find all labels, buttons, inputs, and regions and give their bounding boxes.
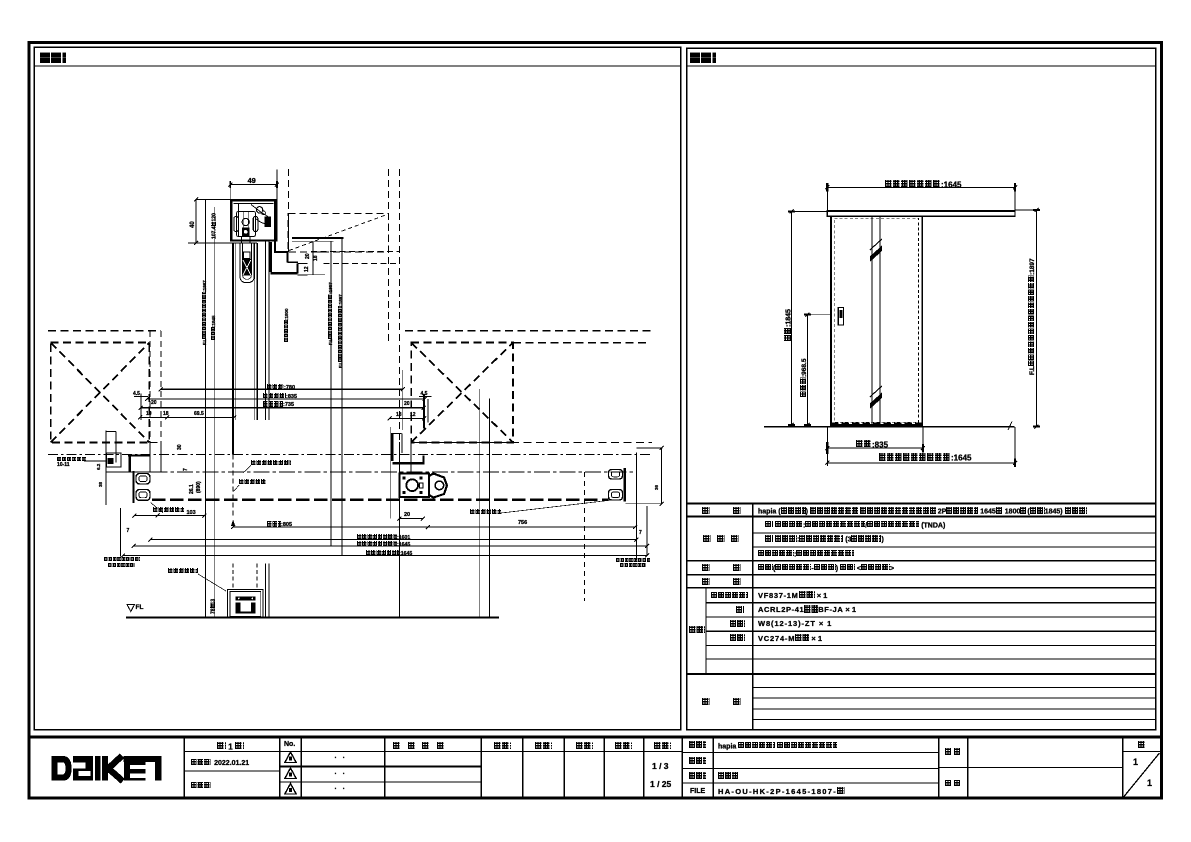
leader text 吊車移動芯 (239, 479, 266, 487)
dim line FL-rail top 1897 (1036, 210, 1038, 427)
spec label 備考 (702, 698, 710, 706)
value file name (718, 787, 845, 795)
wall end dashed (160, 331, 162, 442)
title block vertical divider (279, 737, 281, 798)
hinban row 扉 (736, 606, 744, 614)
FL text (136, 605, 144, 612)
right panel title 正面図 (690, 52, 716, 66)
label 改訂日 (191, 782, 211, 790)
dim text 吊車芯々寸法835 (263, 393, 297, 401)
ext line (229, 181, 231, 200)
spec table row line (686, 515, 1156, 517)
spec table row line (706, 645, 1156, 647)
page cell diagonal (1124, 753, 1160, 797)
spec table row line (706, 630, 1156, 632)
soffit stepped profile (wall above opening) (274, 200, 276, 252)
rot (890) (197, 481, 202, 493)
spec row 要式 (702, 507, 710, 515)
stile hatch lower (870, 393, 882, 410)
door inner dashed line (834, 218, 918, 422)
revision triangle 3 (285, 784, 296, 795)
biko sub row line (753, 708, 1156, 710)
dim line 1601 (150, 539, 636, 541)
door center stile left (871, 216, 873, 425)
dim extension vertical right b (489, 399, 491, 618)
floor end tick (1008, 422, 1012, 431)
leader 下ストッパー (floor) (168, 568, 198, 576)
wall face line lower (264, 564, 266, 618)
label 頁 (1138, 741, 1146, 750)
dim text 49 (248, 177, 256, 185)
dashed ext (149, 441, 161, 443)
right panel (front view) border (687, 48, 1156, 730)
title block vertical divider page col (1122, 737, 1124, 798)
wall end dashed (149, 331, 151, 442)
wall face line 2 lower (268, 564, 270, 618)
dim text 扉高:1845 (784, 309, 792, 341)
title block vertical divider (603, 737, 605, 798)
long vertical (wall corner) (341, 238, 343, 556)
ext to rail (792, 210, 828, 212)
wall stud X-box right (411, 343, 513, 443)
title block top line (28, 736, 1164, 739)
dim text FL~枠レールセット上端まで1897 (1028, 258, 1036, 375)
right ext vertical 2 (646, 506, 648, 556)
label 改訂履歴 (393, 742, 445, 751)
spec table label/content divider (752, 504, 754, 730)
right rail end vertical (635, 453, 637, 560)
dim line handle height (806, 315, 808, 425)
rot label FL~上端1897 (338, 294, 344, 368)
biko sub row line (753, 686, 1156, 688)
leader 下ストッパー (track) (153, 507, 184, 515)
dim line door height 1845 (791, 211, 793, 425)
wall line solid below (398, 442, 400, 617)
stile hatch upper (870, 246, 882, 263)
revision triangle 1 (285, 752, 296, 763)
door panel vertical section (232, 243, 234, 455)
scale 1/25 (650, 780, 671, 789)
spec table row line (706, 658, 1156, 660)
title header row underline (184, 750, 682, 752)
zumei row line (682, 782, 939, 784)
revision dots row 2 (335, 771, 346, 778)
dim line 1645a (134, 545, 648, 547)
hinban row 引手 (730, 620, 745, 628)
upper rail housing cross-section (231, 200, 276, 240)
biko sub row line (753, 719, 1156, 721)
wall stud X-box left (51, 343, 150, 443)
dim line: upper rail outer 1645 (827, 186, 1015, 188)
dim line 49 (230, 184, 277, 186)
rot 30 (178, 444, 183, 450)
right track stopper bracket (623, 468, 625, 502)
dim text 7 (639, 531, 642, 536)
ext (626, 503, 663, 505)
label No. (284, 741, 295, 748)
dashed vertical right (583, 472, 585, 601)
spec rows 仕上げ (703, 535, 711, 543)
title block vertical divider (522, 737, 524, 798)
rot dim 78=13 (210, 599, 217, 614)
left panel (section view) border (34, 47, 681, 730)
spec row 把手 (702, 564, 710, 572)
name row line (682, 752, 939, 754)
revision triangle 2 (285, 768, 296, 779)
title block vertical divider (643, 737, 645, 798)
left ext vertical for dims (120, 508, 122, 556)
left jamb casing detail (105, 431, 107, 506)
left panel title 断面図 (40, 52, 66, 66)
dim 20 (399, 518, 423, 520)
floor line (126, 616, 499, 618)
rot dim 38 (99, 482, 104, 487)
title block vertical divider after logo (183, 737, 185, 798)
mitsumori row line (682, 767, 939, 769)
revision dots row 1 (335, 755, 346, 762)
scale 1/3 (652, 762, 669, 771)
upper rail bar (827, 210, 1015, 216)
dashed wall outer face right (405, 330, 652, 332)
dim text 上レール外寸法:1645 (885, 180, 961, 189)
page col header underline (1123, 751, 1161, 753)
right panel header underline (686, 65, 1156, 67)
door top pocket and hanger bolt (240, 243, 254, 283)
revision row line 1 (280, 765, 482, 767)
page total 1 (1147, 779, 1152, 788)
leader text 全閉時扉先端位置 (251, 460, 291, 468)
ext line (922, 427, 924, 451)
label 制定日 2022.01.21 (191, 759, 250, 767)
biko sub row line (753, 697, 1156, 699)
dashed rect (opening above) (288, 213, 388, 252)
spec table row line (686, 560, 1156, 562)
dashed soffit line 2 (324, 263, 400, 265)
dim line 1645b (123, 555, 647, 557)
leader line (84, 460, 106, 462)
dim line bottom stopper 1645 (827, 462, 1015, 464)
ext line handle height (807, 314, 831, 316)
rot dim 6.2 (97, 464, 102, 470)
lintel cap thin (292, 240, 334, 242)
spec table row line (706, 616, 1156, 618)
dim text 40 (190, 221, 196, 228)
dashed diagonal (289, 215, 387, 251)
dim text レール内寸法735 (263, 401, 294, 409)
hinban row 吊戸レール (711, 592, 748, 600)
rot 26.1 (190, 484, 195, 494)
label 第1版 (217, 742, 244, 751)
rot label 扉高1845 (211, 315, 217, 340)
ext line left bottom (826, 427, 828, 466)
tiny text レールエンドキャップ right (616, 558, 650, 563)
FL floor marker (127, 605, 135, 612)
revision dots row 3 (335, 786, 346, 793)
dim 103 (134, 515, 204, 517)
label 作成 (576, 742, 593, 751)
wall face line above housing (276, 170, 278, 201)
spec row 錠前 (702, 578, 710, 586)
title block vertical divider rev (384, 737, 386, 798)
spec table row line (753, 546, 1156, 548)
upper rail bar top edge (827, 210, 1015, 212)
leader text 全体有効開口 (57, 457, 86, 464)
title block vertical divider (967, 737, 969, 798)
dim extension vertical left inner (214, 207, 216, 617)
dim text 756 (518, 521, 527, 527)
spec table row line (686, 673, 1156, 675)
label 名称 (689, 741, 706, 749)
title block vertical divider (712, 737, 714, 798)
dashed wall inner face right ext (513, 342, 650, 344)
floor line (764, 426, 1015, 428)
tiny text レールエンドキャップ left (104, 557, 140, 562)
dashed wall inner face right (411, 441, 652, 443)
ext (636, 447, 662, 449)
label 縮尺 (615, 742, 632, 751)
dim text 805 (267, 521, 292, 529)
dim text 下ストッパー内寸法1601 (357, 534, 410, 541)
dim text 下ストッパー外寸法:1645 (879, 453, 971, 462)
dim stack frame/rail widths (161, 388, 403, 390)
wall end solid (160, 442, 162, 472)
rot label 内法高1800 (284, 308, 290, 342)
title block vertical divider (563, 737, 565, 798)
spec table row line (686, 574, 1156, 576)
door bottom stopper strip (831, 422, 922, 425)
dim line 36 (661, 448, 663, 504)
rot label FL~吊車レール上端まで (202, 280, 208, 345)
hinban row 出隅 (730, 634, 745, 642)
spec label 品番 (689, 626, 705, 634)
wall centerline dash-dot (48, 454, 652, 456)
dim extension vertical right a (479, 389, 481, 617)
small dim 4.5 (134, 396, 148, 398)
dim text 20 (404, 513, 410, 519)
wall face line 2 (268, 241, 270, 420)
label 見積 (689, 757, 706, 765)
title block vertical divider (681, 737, 683, 798)
dashed wall stud line 2 (398, 169, 400, 442)
door travel heavy dashed line (152, 498, 609, 501)
floor stopper detail (228, 590, 264, 618)
title block vertical divider (300, 737, 302, 798)
stile hatch upper line (870, 239, 882, 250)
small ext (140, 394, 142, 421)
left panel header underline (34, 65, 682, 67)
sakusha/busho divider (939, 766, 1123, 768)
dim text 枠外寸法780 (267, 384, 295, 392)
door center stile right (879, 216, 881, 425)
center guide detail (400, 474, 430, 498)
stile hatch lower line (870, 386, 882, 397)
label 図名 (689, 772, 706, 780)
label 作者 (945, 748, 961, 756)
dim line 40 (195, 200, 197, 244)
wall face line (264, 241, 266, 420)
hinban sub divider (705, 588, 707, 674)
label FILE (690, 788, 705, 795)
dim line 805/756 (233, 526, 635, 528)
door handle (838, 308, 843, 326)
dashed wall stud line (387, 169, 389, 342)
dashed wall line (287, 169, 289, 252)
dim text 上レール外寸法1645 (366, 550, 412, 557)
title block vertical divider (938, 737, 940, 798)
ext line right (1014, 183, 1016, 211)
door panel outline (831, 216, 922, 425)
dim text 把手高:968.5 (800, 358, 808, 396)
left track stopper bracket (132, 471, 134, 503)
wall end solid (149, 442, 151, 472)
dim text 扉幅:835 (856, 440, 888, 449)
dim text 下ストッパー外寸法1645 (357, 541, 410, 548)
page 1 (1133, 758, 1138, 767)
small dims 20 18 12 (312, 242, 314, 275)
label 確認 (535, 742, 552, 751)
rot 7 (184, 468, 189, 471)
track top line dash-dot (152, 471, 637, 473)
title block vertical divider (480, 737, 482, 798)
spec table row line (686, 587, 1156, 589)
dashed soffit line (311, 251, 399, 253)
dim text 107.4=120 (211, 213, 218, 239)
seitei/kaitei divider (184, 770, 280, 772)
right wall end solid (410, 442, 412, 472)
dim extension vertical left outer (205, 200, 207, 618)
rot label FL~下端1807 (328, 282, 334, 345)
dim text 36 (655, 485, 660, 490)
label 部署 (945, 780, 961, 788)
spec table top (686, 503, 1156, 505)
value 三面図 (718, 772, 739, 780)
spec table row line (753, 532, 1156, 534)
dashed wall outer face left (48, 330, 161, 332)
ext line left (826, 183, 828, 211)
long vertical (wall corner inner) (330, 241, 332, 546)
spec table row line (706, 602, 1156, 604)
label 検認 (494, 742, 511, 751)
revision row line 2 (280, 781, 482, 783)
leader 下ストッパー (right) (470, 509, 501, 517)
dim text 103 (187, 511, 196, 517)
right jamb casing detail (390, 427, 392, 519)
value hapia アウトセット吊戸 (718, 742, 837, 750)
ext line right bottom (1014, 427, 1016, 466)
door handle grip (840, 310, 843, 318)
label 縮尺2 (654, 742, 671, 751)
dim text 7 left (127, 529, 130, 534)
dim line door width 835 (827, 447, 923, 449)
DAIKEN logo mark (52, 756, 72, 781)
lintel cap thick (292, 237, 344, 239)
